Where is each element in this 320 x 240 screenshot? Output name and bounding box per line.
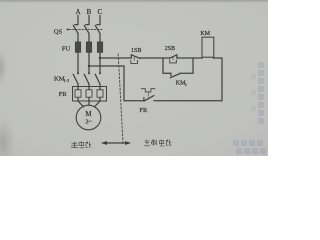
- svg-text:A: A: [75, 8, 80, 16]
- svg-text:B: B: [87, 8, 92, 16]
- svg-text:FR: FR: [59, 91, 68, 98]
- svg-text:M: M: [85, 110, 92, 118]
- svg-text:KM: KM: [200, 31, 210, 37]
- svg-text:3~: 3~: [85, 120, 92, 126]
- svg-text:FR: FR: [139, 107, 148, 114]
- svg-text:1-3: 1-3: [64, 79, 69, 83]
- svg-text:2SB: 2SB: [165, 46, 175, 52]
- svg-text:QS: QS: [54, 28, 63, 35]
- svg-text:1: 1: [185, 83, 187, 87]
- svg-text:FU: FU: [62, 46, 71, 53]
- svg-text:1SB: 1SB: [131, 48, 141, 54]
- svg-text:C: C: [97, 8, 102, 16]
